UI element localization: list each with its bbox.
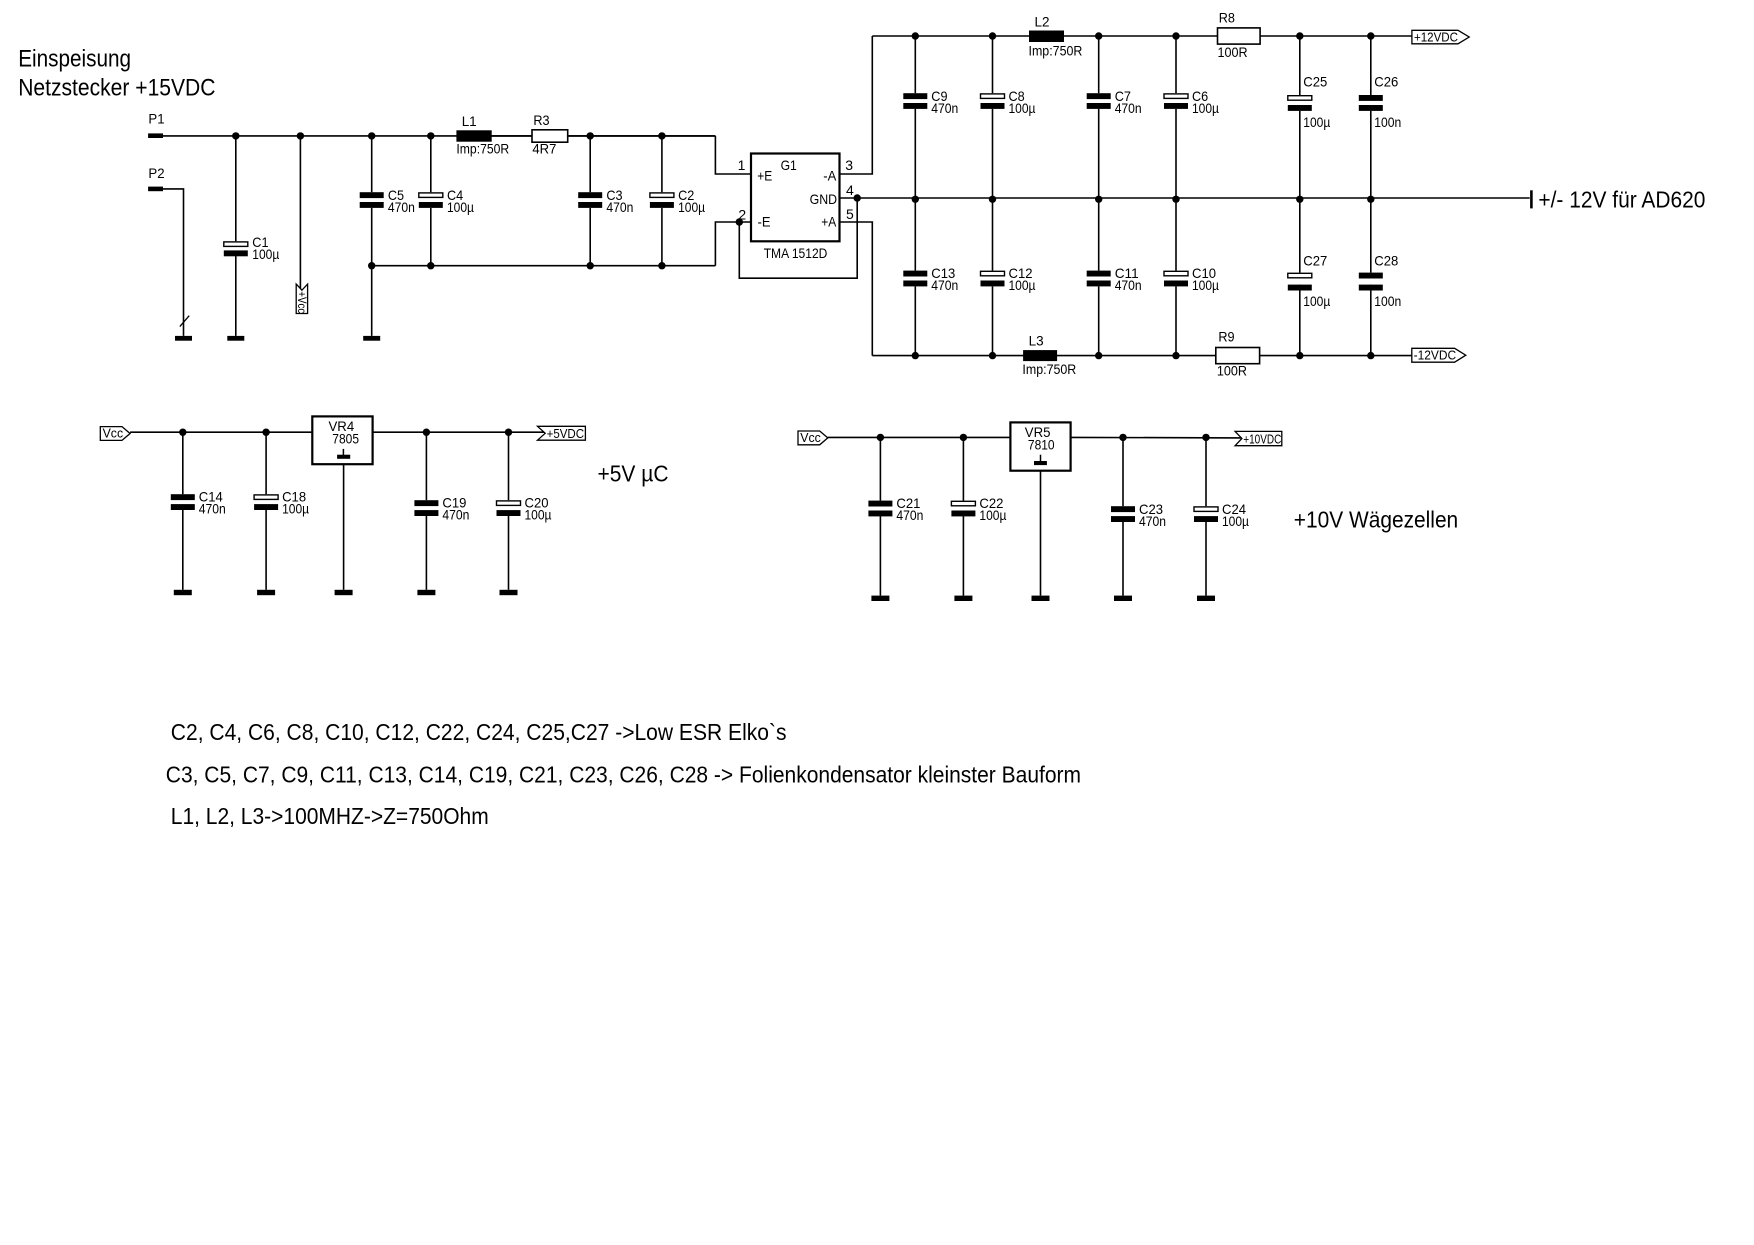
svg-text:C26: C26: [1374, 73, 1398, 89]
svg-text:C27: C27: [1303, 253, 1327, 269]
capacitor C24 100µ: [1194, 507, 1218, 512]
node +Vcc wire down: [299, 136, 301, 290]
wire bottom-left rail: [372, 265, 716, 267]
svg-text:470n: 470n: [606, 199, 633, 215]
svg-text:470n: 470n: [931, 100, 958, 116]
wire rail corner down to pin 1: [715, 136, 751, 174]
capacitor C5 470n folien: [360, 192, 384, 198]
junction dots on 10V rail: [877, 434, 884, 441]
inductor L1: [456, 130, 491, 141]
flag +12VDC: [1412, 30, 1469, 44]
wire C2 column: [661, 136, 663, 192]
svg-text:470n: 470n: [1115, 277, 1142, 293]
svg-text:C28: C28: [1374, 253, 1398, 269]
wire C20 column: [508, 432, 510, 500]
svg-text:100R: 100R: [1218, 44, 1248, 60]
svg-text:+5V µC: +5V µC: [598, 461, 669, 487]
svg-text:100µ: 100µ: [1303, 293, 1330, 309]
svg-text:100µ: 100µ: [1222, 513, 1249, 529]
wire C25 column upper: [1299, 36, 1301, 95]
voltage regulator VR5 7810: [1010, 422, 1070, 470]
svg-text:100R: 100R: [1217, 363, 1247, 379]
svg-text:100µ: 100µ: [1009, 100, 1036, 116]
capacitor C19 470n: [414, 500, 438, 506]
wire C6 column upper: [1175, 36, 1177, 93]
ground C22: [954, 596, 972, 601]
svg-text:+A: +A: [821, 214, 837, 230]
capacitor C2 100µ elko: [650, 193, 674, 198]
power flag Vcc (5V input): [100, 427, 130, 441]
svg-text:C2, C4, C6, C8, C10, C12, C22,: C2, C4, C6, C8, C10, C12, C22, C24, C25,…: [171, 719, 787, 745]
wire +15V rail from P1: [163, 135, 715, 137]
svg-text:L2: L2: [1035, 13, 1050, 29]
junction dots on bottom rail: [912, 352, 919, 359]
svg-text:470n: 470n: [931, 277, 958, 293]
svg-text:G1: G1: [781, 157, 797, 173]
svg-text:C25: C25: [1303, 73, 1327, 89]
svg-text:+E: +E: [757, 168, 772, 184]
junction dots on bottom-left rail: [368, 262, 375, 269]
svg-text:4R7: 4R7: [532, 140, 556, 156]
svg-text:470n: 470n: [1115, 100, 1142, 116]
capacitor C1 100µ elko: [224, 242, 248, 247]
wire C26 column upper: [1370, 36, 1372, 95]
wire GND pin 4 rail: [840, 197, 1530, 199]
capacitor C4 100µ elko: [419, 193, 443, 198]
svg-text:100µ: 100µ: [1192, 277, 1219, 293]
wire C24 column: [1205, 437, 1207, 506]
svg-text:100µ: 100µ: [1009, 277, 1036, 293]
wire Vcc to VR5: [828, 436, 1011, 438]
capacitor C22 100µ: [951, 501, 975, 506]
wire VR4 ground: [343, 464, 345, 590]
wire C11 column lower: [1098, 198, 1100, 271]
svg-text:4: 4: [846, 182, 854, 198]
wire C18 column: [265, 432, 267, 494]
svg-text:+Vcc: +Vcc: [295, 291, 307, 313]
junction dots on +15V rail: [232, 132, 239, 139]
svg-text:Imp:750R: Imp:750R: [1022, 361, 1076, 377]
wire C21 column: [879, 437, 881, 500]
wire C12 column lower: [992, 198, 994, 271]
capacitor C13 470n: [903, 271, 927, 277]
wire C1 to ground: [235, 256, 237, 336]
svg-text:Einspeisung: Einspeisung: [18, 46, 131, 73]
wire C9 column upper: [914, 36, 916, 93]
flag +10VDC: [1235, 431, 1282, 445]
svg-text:TMA 1512D: TMA 1512D: [764, 245, 828, 261]
svg-text:Vcc: Vcc: [800, 430, 821, 445]
svg-text:100µ: 100µ: [282, 501, 309, 517]
wire VR5 ground: [1040, 471, 1042, 596]
svg-text:3: 3: [845, 157, 853, 173]
svg-text:-A: -A: [823, 168, 837, 184]
junction dots on GND mid rail: [912, 196, 919, 203]
ground C5 chain: [363, 336, 380, 341]
resistor R8 100R: [1218, 28, 1261, 44]
capacitor C3 470n folien: [578, 192, 602, 198]
ground C20: [500, 590, 518, 595]
flag -12VDC: [1412, 348, 1466, 362]
wire +12V top rail: [872, 35, 1412, 37]
wire bottom rail corner up to pin 2: [715, 222, 751, 266]
wire C22 column: [962, 437, 964, 500]
svg-text:470n: 470n: [442, 507, 469, 523]
connector pin P1: [148, 133, 163, 138]
VR5 internal ground marker: [1040, 455, 1042, 461]
svg-text:L1, L2, L3->100MHZ->Z=750Ohm: L1, L2, L3->100MHZ->Z=750Ohm: [171, 803, 489, 829]
capacitor C27 100µ: [1288, 273, 1312, 278]
wire -12V bottom rail: [872, 355, 1412, 357]
svg-text:+5VDC: +5VDC: [547, 426, 585, 441]
wire C1 column: [235, 136, 237, 241]
junction GND pin 4: [854, 194, 861, 201]
svg-text:Netzstecker +15VDC: Netzstecker +15VDC: [18, 74, 215, 101]
wire C5 column: [371, 136, 373, 192]
wire C5 to bottom rail and ground: [371, 208, 373, 336]
capacitor C25 100µ: [1288, 96, 1312, 101]
capacitor C8 100µ: [981, 94, 1005, 99]
resistor R3 4R7: [532, 130, 568, 142]
svg-text:100µ: 100µ: [678, 199, 705, 215]
wire -A pin 3 to top rail: [840, 36, 873, 174]
svg-text:7810: 7810: [1028, 437, 1055, 453]
svg-text:5: 5: [846, 206, 854, 222]
svg-text:+/- 12V für AD620: +/- 12V für AD620: [1538, 187, 1705, 213]
svg-text:100n: 100n: [1374, 114, 1401, 130]
wire L1 to R3: [492, 135, 532, 137]
resistor R9 100R: [1216, 348, 1260, 364]
wire C13 column lower: [914, 198, 916, 271]
svg-text:7805: 7805: [332, 431, 359, 447]
GND rail end tick: [1530, 190, 1533, 208]
wire C14 column: [182, 432, 184, 494]
junction dots on 5V rail: [179, 429, 186, 436]
capacitor C12 100µ: [981, 271, 1005, 276]
ground C18: [257, 590, 275, 595]
capacitor C14 470n: [171, 494, 195, 500]
ground C21: [871, 596, 889, 601]
junction dots on top rail: [912, 32, 919, 39]
svg-text:100n: 100n: [1374, 293, 1401, 309]
svg-text:GND: GND: [810, 191, 838, 207]
svg-text:100µ: 100µ: [447, 199, 474, 215]
junction -E pin 2: [736, 218, 743, 225]
svg-text:R8: R8: [1219, 10, 1235, 26]
VR4 internal ground marker: [342, 449, 344, 455]
svg-text:-12VDC: -12VDC: [1414, 347, 1457, 362]
svg-text:+10VDC: +10VDC: [1243, 431, 1281, 446]
svg-text:100µ: 100µ: [1303, 114, 1330, 130]
wire C27 column lower: [1299, 198, 1301, 273]
capacitor C26 100n: [1359, 95, 1383, 101]
ground C19: [417, 590, 435, 595]
svg-text:P1: P1: [148, 110, 164, 126]
wire C8 column upper: [992, 36, 994, 93]
wire VR5 out to +10VDC flag: [1071, 436, 1242, 439]
svg-text:L3: L3: [1029, 332, 1044, 348]
connector pin P2: [148, 187, 163, 192]
wire C23 column: [1122, 437, 1124, 506]
svg-text:R9: R9: [1218, 329, 1234, 345]
svg-text:100µ: 100µ: [525, 507, 552, 523]
capacitor C11 470n: [1087, 271, 1111, 277]
wire VR4 out to +5VDC flag: [373, 431, 545, 433]
svg-text:-E: -E: [758, 214, 771, 230]
capacitor C9 470n: [903, 93, 927, 99]
capacitor C10 100µ: [1164, 271, 1188, 276]
svg-text:470n: 470n: [199, 501, 226, 517]
ground VR4: [335, 590, 353, 595]
ground VR5: [1032, 596, 1050, 601]
capacitor C18 100µ: [254, 495, 278, 500]
wire C19 column: [425, 432, 427, 500]
wire -E to GND loop under G1: [739, 198, 857, 278]
svg-text:470n: 470n: [1139, 513, 1166, 529]
ground C1: [227, 336, 244, 341]
capacitor C7 470n: [1087, 93, 1111, 99]
wire-entry slash on P2 wire: [180, 316, 189, 327]
wire C4 column: [430, 136, 432, 192]
svg-text:2: 2: [738, 207, 746, 223]
svg-text:R3: R3: [533, 112, 549, 128]
wire P2 to ground: [163, 189, 184, 336]
svg-text:Vcc: Vcc: [103, 426, 124, 441]
capacitor C21 470n: [868, 501, 892, 507]
svg-text:+10V Wägezellen: +10V Wägezellen: [1294, 507, 1458, 533]
inductor L3: [1023, 350, 1057, 361]
capacitor C28 100n: [1359, 273, 1383, 279]
svg-text:C3, C5, C7, C9, C11, C13, C14,: C3, C5, C7, C9, C11, C13, C14, C19, C21,…: [166, 762, 1081, 788]
wire C3 column: [589, 136, 591, 192]
svg-text:470n: 470n: [388, 199, 415, 215]
svg-text:P2: P2: [148, 165, 164, 181]
wire C28 column lower: [1370, 198, 1372, 273]
ground C14: [174, 590, 192, 595]
power flag Vcc (10V input): [798, 431, 828, 445]
ground C23: [1114, 596, 1132, 601]
ground P2: [175, 336, 192, 341]
wire +A pin 5 to bottom rail: [840, 222, 873, 356]
svg-text:100µ: 100µ: [979, 507, 1006, 523]
wire C7 column upper: [1098, 36, 1100, 93]
voltage regulator VR4 7805: [312, 416, 372, 464]
DC/DC converter G1 TMA 1512D: [751, 154, 840, 242]
svg-text:+12VDC: +12VDC: [1414, 29, 1458, 44]
svg-text:470n: 470n: [896, 507, 923, 523]
flag +5VDC: [538, 426, 586, 440]
svg-text:Imp:750R: Imp:750R: [456, 140, 509, 156]
ground C24: [1197, 596, 1215, 601]
capacitor C20 100µ: [497, 501, 521, 506]
power flag +Vcc (pointing down): [296, 284, 307, 313]
capacitor C23 470n: [1111, 506, 1135, 512]
svg-text:L1: L1: [462, 113, 477, 129]
inductor L2: [1029, 31, 1064, 43]
svg-text:100µ: 100µ: [1192, 100, 1219, 116]
svg-text:Imp:750R: Imp:750R: [1029, 43, 1083, 59]
wire Vcc to VR4: [130, 431, 312, 433]
wire C10 column lower: [1175, 198, 1177, 271]
svg-text:1: 1: [738, 157, 746, 173]
svg-text:100µ: 100µ: [252, 246, 279, 262]
capacitor C6 100µ: [1164, 94, 1188, 99]
wire R3 to C3/C2: [568, 135, 716, 137]
